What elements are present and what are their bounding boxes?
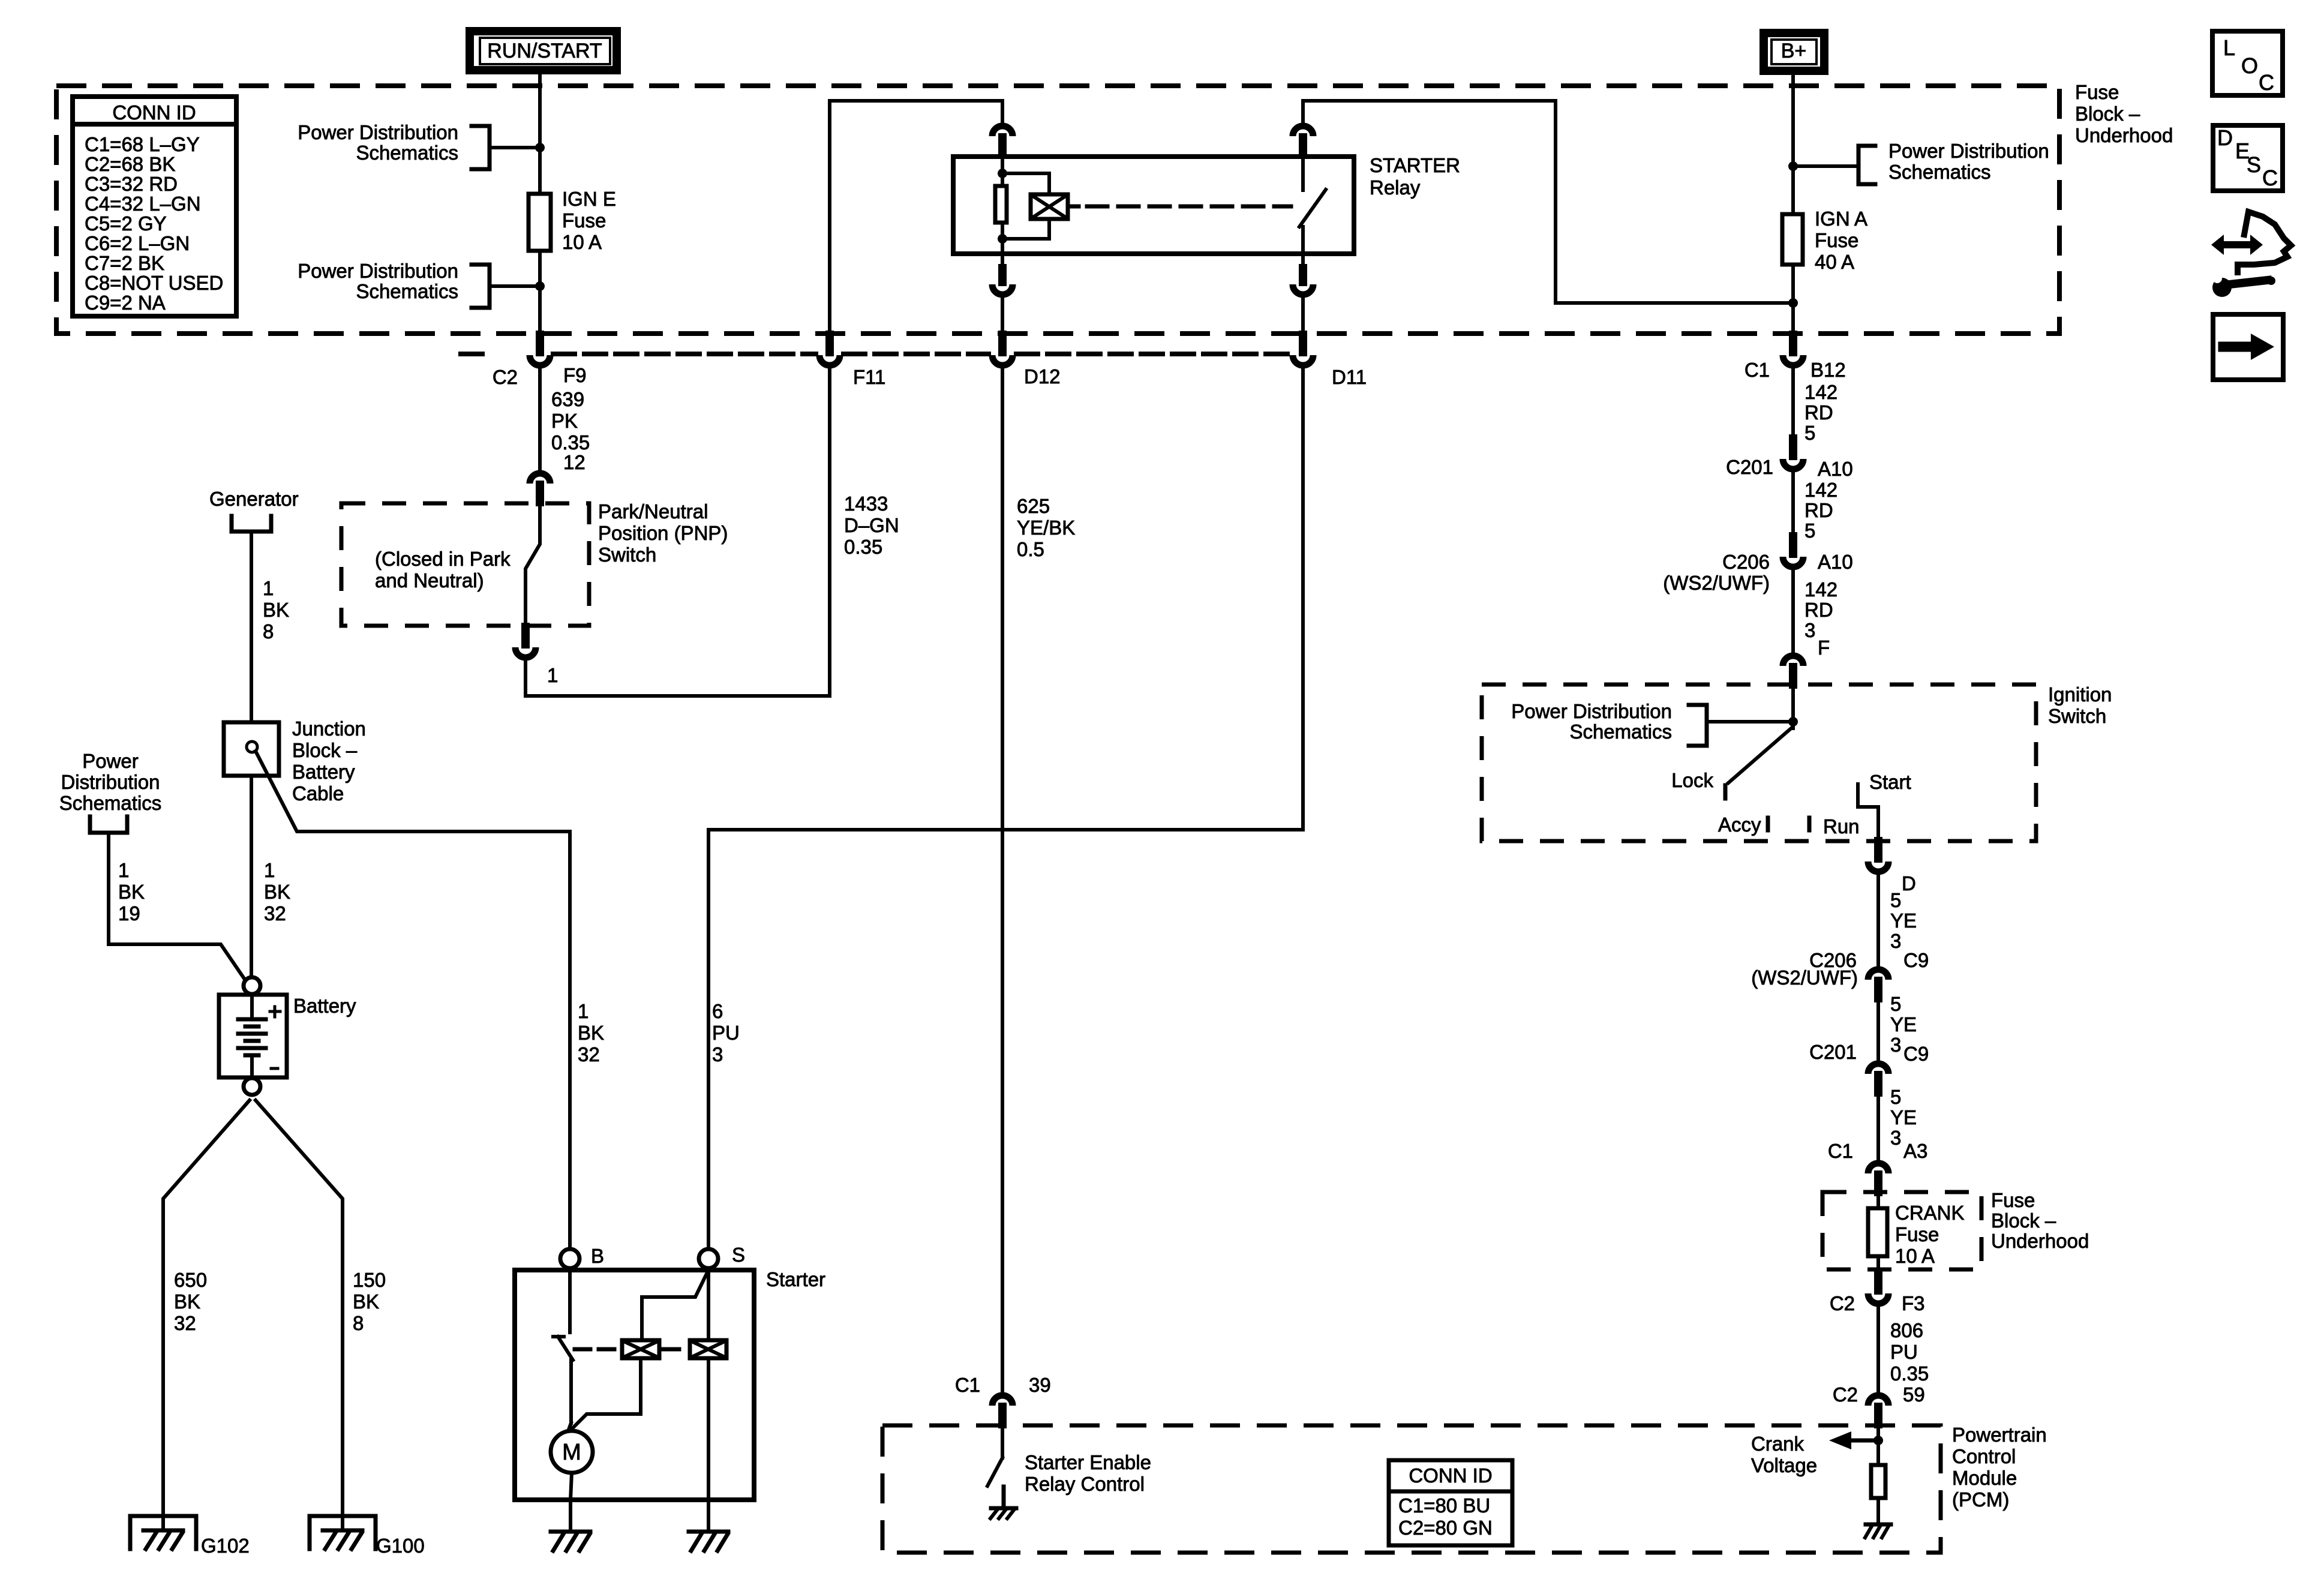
starter main contact to motor bbox=[569, 1360, 573, 1423]
svg-text:Block –: Block – bbox=[1991, 1209, 2056, 1232]
svg-text:3: 3 bbox=[1890, 1127, 1901, 1149]
svg-text:Generator: Generator bbox=[209, 488, 299, 510]
svg-text:M: M bbox=[562, 1440, 581, 1465]
svg-text:806: 806 bbox=[1890, 1319, 1923, 1341]
junction dot B+ upper bbox=[1788, 161, 1798, 171]
svg-text:Module: Module bbox=[1952, 1467, 2017, 1489]
pnp switch blade bbox=[526, 503, 540, 627]
relay coil resistor bbox=[995, 186, 1007, 223]
svg-text:625: 625 bbox=[1017, 495, 1050, 517]
svg-text:Fuse: Fuse bbox=[1991, 1189, 2035, 1211]
connector C2/F9 bbox=[536, 335, 544, 352]
wire 639 PK bbox=[538, 367, 542, 470]
svg-text:5: 5 bbox=[1804, 422, 1815, 444]
generator terminal saddle bbox=[232, 516, 271, 532]
icon box DESC bbox=[2213, 125, 2283, 191]
svg-text:A3: A3 bbox=[1903, 1140, 1927, 1162]
wire into crank fuse bbox=[1876, 1192, 1880, 1208]
svg-text:BK: BK bbox=[263, 599, 289, 621]
junction dot coil bottom bbox=[998, 234, 1007, 244]
svg-text:PK: PK bbox=[551, 410, 578, 432]
svg-text:CRANK: CRANK bbox=[1895, 1202, 1965, 1224]
starter relay box bbox=[953, 157, 1354, 254]
wire 5 YE 3 (1) bbox=[1876, 873, 1880, 967]
svg-text:1433: 1433 bbox=[844, 493, 888, 515]
fuse IGN A bbox=[1782, 214, 1803, 265]
wire 806 PU 0.35 bbox=[1876, 1305, 1880, 1393]
connector C206 (crank) bbox=[1868, 969, 1888, 980]
svg-text:D–GN: D–GN bbox=[844, 514, 899, 536]
svg-text:(WS2/UWF): (WS2/UWF) bbox=[1751, 966, 1858, 989]
fuse block underhood dashed box bbox=[56, 86, 2059, 334]
svg-text:L: L bbox=[2223, 35, 2235, 60]
wire fuse IGN A to C1 bbox=[1791, 265, 1795, 335]
junction dot IGN A lower bbox=[1788, 298, 1798, 308]
wire B+ down bbox=[1791, 75, 1795, 212]
junction dot IGN E lower bbox=[535, 281, 545, 291]
connector D11 bbox=[1299, 335, 1307, 352]
svg-text:Block –: Block – bbox=[292, 739, 358, 761]
svg-text:D11: D11 bbox=[1332, 366, 1367, 388]
svg-text:A10: A10 bbox=[1818, 458, 1853, 480]
fuse CRANK bbox=[1868, 1208, 1887, 1256]
svg-text:C1: C1 bbox=[1744, 359, 1770, 381]
crank voltage arrow bbox=[1849, 1439, 1878, 1443]
svg-text:Starter Enable: Starter Enable bbox=[1025, 1451, 1151, 1473]
svg-text:IGN A: IGN A bbox=[1815, 208, 1867, 230]
off-page ref Power Distribution Schematics (B+) bbox=[1858, 146, 1875, 184]
wire RUN/START to fuse IGN E bbox=[538, 74, 542, 192]
svg-text:19: 19 bbox=[118, 902, 140, 924]
fuse IGN E bbox=[529, 194, 551, 251]
wire coil top bbox=[1001, 157, 1004, 186]
connector C1/B12 bbox=[1789, 335, 1797, 352]
svg-text:Relay Control: Relay Control bbox=[1025, 1473, 1145, 1495]
relay switch blade bbox=[1299, 190, 1326, 227]
pcm dashed box bbox=[882, 1425, 1941, 1553]
svg-text:Fuse: Fuse bbox=[2075, 81, 2119, 103]
wire 5 YE 3 (2) bbox=[1876, 998, 1880, 1061]
svg-text:G100: G100 bbox=[376, 1535, 425, 1557]
svg-text:142: 142 bbox=[1804, 479, 1837, 501]
svg-text:142: 142 bbox=[1804, 578, 1837, 601]
wire junction block to battery bbox=[250, 776, 253, 979]
crank fuse dashed box bbox=[1822, 1192, 1981, 1269]
svg-text:1: 1 bbox=[118, 859, 129, 881]
svg-text:G102: G102 bbox=[201, 1535, 250, 1557]
svg-text:142: 142 bbox=[1804, 381, 1837, 403]
svg-text:3: 3 bbox=[1890, 1034, 1901, 1056]
svg-text:C206: C206 bbox=[1722, 551, 1770, 573]
svg-text:59: 59 bbox=[1903, 1383, 1925, 1406]
svg-text:C2=80 GN: C2=80 GN bbox=[1398, 1517, 1493, 1539]
svg-text:C1: C1 bbox=[1828, 1140, 1853, 1162]
svg-text:639: 639 bbox=[551, 388, 584, 410]
svg-text:Accy: Accy bbox=[1718, 813, 1761, 836]
wire resistor to ground bbox=[1876, 1498, 1880, 1524]
svg-text:C1=68 L–GY: C1=68 L–GY bbox=[85, 133, 200, 155]
connector relay coil top bbox=[992, 126, 1013, 136]
svg-text:BK: BK bbox=[118, 881, 145, 903]
wire motor to ground bbox=[571, 1473, 572, 1500]
svg-text:1: 1 bbox=[263, 577, 274, 599]
svg-text:PU: PU bbox=[1890, 1341, 1918, 1363]
svg-text:Starter: Starter bbox=[766, 1268, 825, 1290]
starter pull-in return bbox=[571, 1360, 641, 1430]
svg-text:C1=80 BU: C1=80 BU bbox=[1398, 1494, 1490, 1517]
svg-text:BK: BK bbox=[578, 1022, 604, 1044]
ground G102 bbox=[130, 1516, 196, 1549]
svg-text:5: 5 bbox=[1890, 889, 1901, 911]
accy contact tick bbox=[1766, 818, 1770, 830]
junction block bbox=[224, 722, 279, 776]
svg-text:0.35: 0.35 bbox=[551, 431, 590, 454]
pnp switch dashed box bbox=[341, 503, 589, 626]
svg-text:1: 1 bbox=[578, 1000, 588, 1022]
svg-text:C3=32 RD: C3=32 RD bbox=[85, 173, 178, 195]
ground G100 bbox=[310, 1516, 376, 1549]
svg-text:C2: C2 bbox=[493, 366, 518, 388]
svg-text:Switch: Switch bbox=[598, 544, 656, 566]
svg-text:C5=2 GY: C5=2 GY bbox=[85, 212, 167, 235]
svg-text:10 A: 10 A bbox=[562, 231, 602, 253]
svg-text:32: 32 bbox=[264, 902, 286, 924]
icon repair bbox=[2211, 235, 2263, 255]
wire 5 YE 3 (3) bbox=[1876, 1092, 1880, 1161]
connector C1/A3 bbox=[1868, 1163, 1888, 1173]
svg-text:Battery: Battery bbox=[292, 761, 355, 783]
connector C201 (power) bbox=[1789, 439, 1797, 456]
wire PNP pin1 to F11 bbox=[526, 368, 830, 696]
junction dot ign switch bbox=[1788, 717, 1798, 727]
battery box bbox=[219, 995, 287, 1077]
wire battery to G100 bbox=[256, 1100, 343, 1530]
net label B+ bbox=[1764, 33, 1824, 71]
icon box LOC bbox=[2212, 31, 2283, 95]
relay coil winding bbox=[1031, 194, 1068, 219]
svg-text:YE/BK: YE/BK bbox=[1017, 517, 1075, 539]
wire 142 RD 5 (1) bbox=[1791, 367, 1795, 439]
wire fuse IGN E to C2 bbox=[538, 253, 542, 335]
svg-text:Power: Power bbox=[82, 750, 139, 772]
starter S to hold-in bbox=[707, 1268, 710, 1338]
start contact bbox=[1858, 784, 1878, 841]
starter motor ground bbox=[551, 1530, 590, 1534]
svg-text:O: O bbox=[2241, 53, 2258, 78]
svg-text:40 A: 40 A bbox=[1815, 251, 1854, 273]
svg-text:Underhood: Underhood bbox=[1991, 1230, 2089, 1252]
run contact tick bbox=[1807, 818, 1812, 830]
svg-text:3: 3 bbox=[1804, 619, 1815, 641]
svg-text:BK: BK bbox=[264, 881, 290, 903]
wire coil bottom bbox=[1001, 224, 1004, 255]
starter S blade bbox=[642, 1272, 707, 1338]
junction dot crank voltage bbox=[1873, 1436, 1883, 1445]
svg-text:CONN ID: CONN ID bbox=[112, 101, 196, 124]
svg-text:Underhood: Underhood bbox=[2075, 124, 2173, 146]
wire crank voltage bbox=[1876, 1425, 1880, 1465]
svg-text:Schematics: Schematics bbox=[59, 792, 162, 814]
svg-text:C2: C2 bbox=[1833, 1383, 1858, 1406]
svg-text:5: 5 bbox=[1890, 993, 1901, 1015]
svg-text:C201: C201 bbox=[1726, 456, 1773, 478]
relay switch fixed contact bbox=[1301, 157, 1305, 190]
svg-text:Lock: Lock bbox=[1671, 769, 1713, 791]
svg-text:C9: C9 bbox=[1903, 949, 1929, 971]
svg-text:C201: C201 bbox=[1809, 1041, 1857, 1063]
svg-text:Fuse: Fuse bbox=[1815, 229, 1858, 251]
svg-text:39: 39 bbox=[1029, 1374, 1051, 1396]
wire F11 riser bbox=[830, 101, 1002, 335]
connector dash line C2-D11 bbox=[461, 352, 482, 356]
junction dot coil top bbox=[998, 169, 1007, 178]
svg-text:IGN E: IGN E bbox=[562, 188, 616, 210]
svg-text:650: 650 bbox=[174, 1269, 207, 1291]
conn id table bbox=[73, 97, 236, 316]
svg-text:S: S bbox=[732, 1244, 745, 1266]
svg-text:3: 3 bbox=[1890, 930, 1901, 952]
svg-text:STARTER: STARTER bbox=[1370, 154, 1460, 176]
connector F ignition switch bbox=[1783, 656, 1803, 666]
battery cable to starter B bbox=[256, 751, 570, 1249]
svg-text:F: F bbox=[1818, 637, 1830, 659]
svg-text:B12: B12 bbox=[1810, 359, 1846, 381]
wire coil bottom to D12 bbox=[1001, 295, 1004, 335]
connector C201 (crank) bbox=[1868, 1064, 1888, 1074]
wire pd to battery bbox=[109, 834, 247, 982]
svg-text:F11: F11 bbox=[853, 366, 885, 388]
svg-text:Fuse: Fuse bbox=[562, 209, 606, 232]
pcm pull-up resistor bbox=[1871, 1465, 1885, 1498]
svg-text:Fuse: Fuse bbox=[1895, 1223, 1939, 1245]
svg-text:Park/Neutral: Park/Neutral bbox=[598, 500, 708, 523]
svg-text:Battery: Battery bbox=[293, 995, 356, 1017]
svg-text:C: C bbox=[2259, 70, 2274, 95]
connector C2/59 bbox=[1868, 1395, 1888, 1406]
svg-text:RD: RD bbox=[1804, 599, 1833, 621]
pcm ground bbox=[1866, 1523, 1891, 1527]
svg-text:Power Distribution: Power Distribution bbox=[298, 121, 458, 143]
connector D bbox=[1874, 841, 1882, 858]
conn id table pcm bbox=[1389, 1460, 1512, 1545]
svg-text:B+: B+ bbox=[1781, 40, 1807, 62]
wire generator to junction block bbox=[250, 533, 253, 722]
svg-text:1: 1 bbox=[264, 859, 275, 881]
connector PNP pin 1 bbox=[521, 627, 530, 644]
svg-text:Run: Run bbox=[1823, 815, 1860, 837]
svg-text:0.35: 0.35 bbox=[1890, 1362, 1929, 1385]
svg-text:10 A: 10 A bbox=[1895, 1245, 1935, 1267]
svg-text:D: D bbox=[1902, 872, 1916, 894]
svg-text:D: D bbox=[2217, 125, 2233, 150]
svg-text:C7=2 BK: C7=2 BK bbox=[85, 252, 164, 274]
svg-text:RD: RD bbox=[1804, 401, 1833, 424]
wire crank fuse out bbox=[1876, 1256, 1880, 1273]
svg-text:(WS2/UWF): (WS2/UWF) bbox=[1663, 572, 1770, 594]
connector relay switch top bbox=[1293, 126, 1313, 136]
svg-text:D12: D12 bbox=[1024, 365, 1061, 388]
svg-text:RUN/START: RUN/START bbox=[487, 40, 602, 62]
svg-text:32: 32 bbox=[174, 1312, 196, 1334]
svg-text:Schematics: Schematics bbox=[356, 142, 458, 164]
connector D12 bbox=[998, 335, 1007, 352]
svg-text:Power Distribution: Power Distribution bbox=[1888, 140, 2049, 162]
svg-text:YE: YE bbox=[1890, 1013, 1917, 1035]
svg-text:Schematics: Schematics bbox=[1888, 161, 1991, 183]
battery minus sign bbox=[271, 1067, 278, 1070]
svg-text:F3: F3 bbox=[1902, 1292, 1925, 1314]
svg-text:8: 8 bbox=[263, 620, 274, 643]
svg-text:1: 1 bbox=[547, 664, 558, 686]
connector C1/39 bbox=[992, 1395, 1013, 1406]
svg-text:PU: PU bbox=[712, 1022, 740, 1044]
terminal S bbox=[699, 1249, 718, 1268]
relay coil dashed actuator link bbox=[1070, 205, 1079, 209]
battery plus sign bbox=[270, 1010, 280, 1013]
svg-text:Relay: Relay bbox=[1370, 176, 1421, 199]
svg-text:C1: C1 bbox=[955, 1374, 980, 1396]
svg-text:Distribution: Distribution bbox=[61, 771, 160, 793]
svg-text:3: 3 bbox=[712, 1043, 723, 1065]
connector relay coil bottom bbox=[1001, 254, 1004, 267]
battery cells bbox=[250, 995, 254, 1019]
svg-text:Schematics: Schematics bbox=[1569, 721, 1672, 743]
svg-text:Voltage: Voltage bbox=[1751, 1454, 1817, 1476]
connector relay switch bottom bbox=[1301, 254, 1305, 267]
svg-text:RD: RD bbox=[1804, 499, 1833, 521]
wire to relay coil bbox=[1001, 101, 1004, 124]
starter main contact blade bbox=[553, 1335, 564, 1338]
svg-text:Crank: Crank bbox=[1751, 1433, 1804, 1455]
starter box bbox=[515, 1270, 754, 1500]
starter pull-in winding bbox=[622, 1340, 659, 1358]
starter solenoid ground bbox=[689, 1530, 728, 1534]
lock contact tick bbox=[1724, 785, 1728, 798]
svg-text:C8=NOT USED: C8=NOT USED bbox=[85, 272, 223, 294]
starter enable relay control switch bbox=[1001, 1424, 1004, 1458]
svg-text:(Closed in Park: (Closed in Park bbox=[375, 548, 511, 570]
wire 142 RD 5 (2) bbox=[1791, 470, 1795, 536]
connector C2/F3 bbox=[1874, 1273, 1882, 1290]
starter enable ground stub bbox=[1002, 1487, 1006, 1508]
connector PNP top bbox=[530, 473, 550, 484]
terminal B bbox=[560, 1249, 580, 1268]
starter solenoid dashed link bbox=[575, 1347, 618, 1352]
svg-text:Schematics: Schematics bbox=[356, 280, 458, 302]
svg-text:YE: YE bbox=[1890, 1106, 1917, 1128]
wire hold-in to ground bbox=[707, 1360, 710, 1532]
svg-text:32: 32 bbox=[578, 1043, 600, 1065]
starter hold-in winding bbox=[690, 1340, 726, 1358]
starter main contact wire bbox=[568, 1270, 572, 1332]
battery negative terminal bbox=[244, 1078, 260, 1095]
svg-text:(PCM): (PCM) bbox=[1952, 1488, 2009, 1511]
svg-text:C2: C2 bbox=[1830, 1292, 1855, 1314]
wire relay switch top riser bbox=[1303, 101, 1793, 303]
svg-text:C2=68 BK: C2=68 BK bbox=[85, 153, 175, 175]
svg-text:C4=32 L–GN: C4=32 L–GN bbox=[85, 193, 201, 215]
starter motor M bbox=[551, 1431, 593, 1473]
svg-text:150: 150 bbox=[353, 1269, 386, 1291]
svg-text:Position (PNP): Position (PNP) bbox=[598, 522, 728, 544]
ignition switch dashed box bbox=[1482, 685, 2036, 841]
svg-text:F9: F9 bbox=[563, 364, 587, 386]
svg-text:Start: Start bbox=[1869, 771, 1911, 793]
svg-text:C: C bbox=[2262, 166, 2278, 190]
ignition switch blade to Lock bbox=[1728, 727, 1792, 783]
svg-text:and Neutral): and Neutral) bbox=[375, 569, 484, 592]
svg-text:Power Distribution: Power Distribution bbox=[298, 260, 458, 282]
wire battery to G102 bbox=[163, 1100, 250, 1530]
svg-text:A10: A10 bbox=[1818, 551, 1853, 573]
svg-text:C6=2 L–GN: C6=2 L–GN bbox=[85, 232, 190, 254]
svg-text:12: 12 bbox=[563, 451, 585, 473]
connector F11 bbox=[825, 335, 834, 352]
svg-text:8: 8 bbox=[353, 1312, 364, 1334]
svg-text:B: B bbox=[591, 1245, 604, 1267]
wire switch bottom to D11 bbox=[1301, 295, 1305, 335]
battery positive terminal bbox=[244, 977, 260, 994]
svg-text:Junction: Junction bbox=[292, 718, 366, 740]
wire 625 YE/BK bbox=[1001, 367, 1004, 1392]
svg-text:5: 5 bbox=[1890, 1086, 1901, 1108]
svg-text:BK: BK bbox=[353, 1290, 379, 1313]
svg-text:Block –: Block – bbox=[2075, 103, 2140, 125]
svg-text:Control: Control bbox=[1952, 1445, 2016, 1467]
svg-text:Powertrain: Powertrain bbox=[1952, 1424, 2047, 1446]
svg-text:Cable: Cable bbox=[292, 782, 344, 804]
wire D11 to starter S bbox=[708, 367, 1303, 1249]
svg-text:C9: C9 bbox=[1903, 1043, 1929, 1065]
svg-text:C9=2 NA: C9=2 NA bbox=[85, 292, 166, 314]
svg-text:Power Distribution: Power Distribution bbox=[1511, 700, 1672, 722]
junction dot IGN E upper bbox=[535, 143, 545, 152]
svg-text:6: 6 bbox=[712, 1000, 723, 1022]
starter enable ground bbox=[991, 1506, 1016, 1511]
wire ign switch feed bbox=[1791, 685, 1795, 728]
svg-text:Switch: Switch bbox=[2048, 705, 2106, 727]
svg-text:Ignition: Ignition bbox=[2048, 683, 2112, 706]
net label RUN/START bbox=[470, 31, 617, 70]
svg-text:CONN ID: CONN ID bbox=[1409, 1464, 1492, 1487]
svg-text:0.35: 0.35 bbox=[844, 536, 882, 558]
icon box arrow bbox=[2213, 314, 2283, 380]
svg-text:0.5: 0.5 bbox=[1017, 538, 1044, 560]
relay coil branch bbox=[1002, 173, 1049, 193]
svg-text:BK: BK bbox=[174, 1290, 200, 1313]
svg-text:5: 5 bbox=[1804, 520, 1815, 542]
svg-text:S: S bbox=[2247, 152, 2261, 177]
wire 142 RD 3 bbox=[1791, 568, 1795, 653]
relay switch lower wire bbox=[1301, 227, 1305, 254]
svg-text:YE: YE bbox=[1890, 909, 1917, 932]
connector C206 (power) bbox=[1789, 536, 1797, 554]
